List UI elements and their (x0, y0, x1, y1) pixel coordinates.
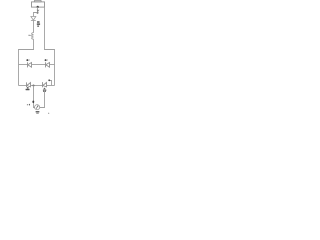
wire middle branch left (19, 64, 28, 66)
wire ammeter right riser (40, 89, 45, 108)
speck right of D3 dot (46, 60, 49, 61)
probe riser (50, 81, 52, 86)
wire middle branch right (50, 64, 55, 66)
speck label right (48, 112, 49, 115)
wire jog left (34, 13, 38, 17)
wire bottom left (19, 85, 27, 87)
wire left bus (19, 50, 35, 86)
label D4 text (26, 89, 30, 90)
label i1 (27, 104, 30, 106)
wire bottom right (47, 85, 55, 87)
label D5 text rows (43, 90, 46, 93)
current arrow chevron (37, 10, 39, 12)
junction dot bottom (33, 85, 35, 87)
probe dot (48, 79, 50, 81)
inductor L1 (3 left bumps) (32, 33, 34, 40)
wire battery right pin down (45, 7, 55, 85)
label L1 tick (29, 35, 31, 36)
wire D1 to L1 (33, 21, 35, 33)
label under ammeter (36, 111, 40, 114)
wire L1 to bus (33, 39, 35, 49)
diode D1 (pointing down) (31, 17, 36, 21)
battery V1 top nub (34, 0, 41, 1)
speck right of D2 dot (28, 60, 31, 61)
battery V1 body (32, 2, 45, 7)
wire bottom center (31, 85, 42, 87)
wire riser to ammeter (34, 86, 35, 108)
diode D5 (pointing left) (43, 82, 47, 87)
label D1 text rows (37, 21, 40, 27)
diode D4 (pointing left) (27, 82, 31, 87)
ammeter circle (35, 105, 40, 110)
ammeter arrow (36, 106, 38, 109)
node dot on riser (32, 101, 34, 104)
diode D3 (pointing left) (46, 62, 50, 67)
battery terminal dot (37, 6, 39, 8)
node dot above D2 (26, 59, 28, 61)
node junction dot (37, 12, 39, 14)
diode D2 (pointing left) (28, 62, 32, 67)
wire middle branch center (32, 64, 45, 66)
node dot above D3 (45, 59, 47, 61)
wire battery center pin down (37, 7, 39, 13)
node dot below D4 (27, 87, 29, 89)
node dot below D5 (44, 88, 46, 90)
